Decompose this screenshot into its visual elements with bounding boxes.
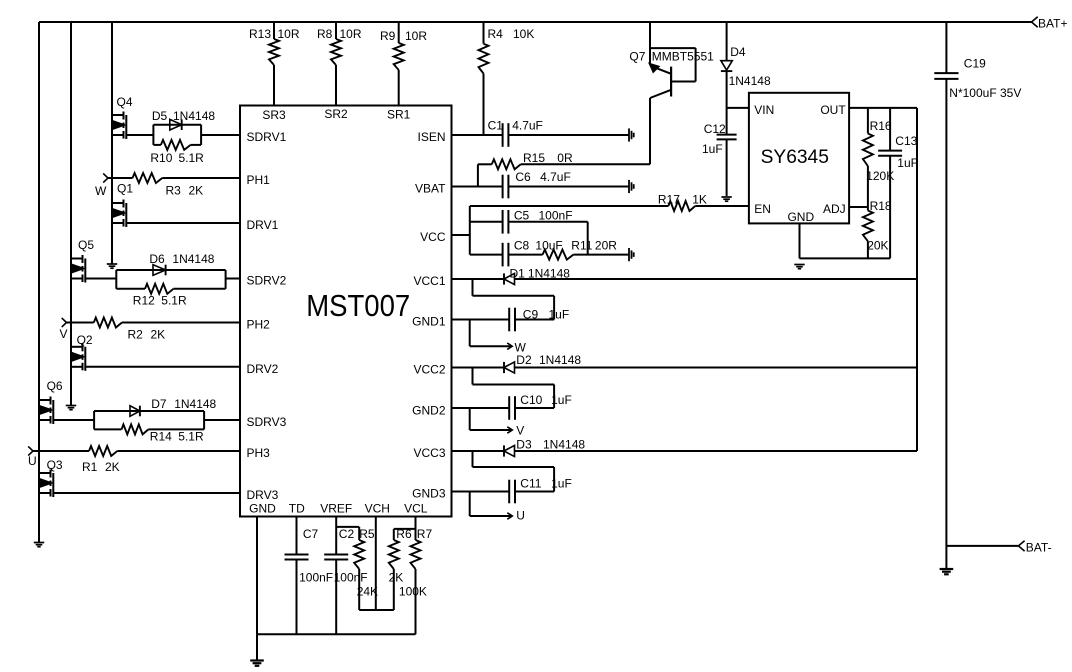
svg-text:D2: D2	[516, 353, 532, 367]
wire VCC1 right	[515, 278, 918, 280]
svg-text:Q5: Q5	[78, 238, 94, 252]
wire DRV2	[85, 366, 240, 368]
wire Q4 gate	[126, 134, 153, 136]
svg-text:GND1: GND1	[412, 315, 446, 329]
svg-text:PH1: PH1	[247, 173, 271, 187]
wire DRV3	[53, 492, 240, 494]
wire VREF pin	[335, 517, 337, 555]
wire VCL to R6	[394, 529, 416, 540]
wire U stub	[470, 492, 512, 517]
pin labels MST007 top	[262, 107, 410, 122]
svg-text:PH3: PH3	[247, 446, 271, 460]
wire VCC3	[452, 450, 505, 452]
svg-text:R2: R2	[128, 328, 144, 342]
capacitor C6	[503, 170, 571, 199]
svg-text:GND3: GND3	[412, 487, 446, 501]
transistor Q1	[112, 182, 133, 228]
wire R11 right	[573, 254, 628, 256]
wire left rail A	[38, 22, 40, 542]
svg-text:D4: D4	[730, 45, 746, 59]
svg-text:VBAT: VBAT	[415, 182, 446, 196]
wire EN right	[695, 205, 749, 207]
svg-text:D5: D5	[152, 109, 168, 123]
svg-text:10uF: 10uF	[535, 238, 562, 252]
svg-text:R5: R5	[359, 527, 375, 541]
svg-text:OUT: OUT	[820, 103, 846, 117]
svg-text:R14: R14	[150, 430, 172, 444]
wire R15 left leg	[478, 164, 492, 186]
capacitor C2	[324, 527, 367, 585]
svg-text:C6: C6	[515, 170, 531, 184]
wire GND2	[452, 407, 510, 409]
ground rail A	[34, 543, 44, 547]
resistor R8	[317, 22, 362, 106]
wire bottom node	[359, 609, 394, 611]
svg-text:R3: R3	[166, 184, 182, 198]
wire VCH pin	[375, 517, 377, 611]
svg-text:C11: C11	[520, 477, 541, 491]
svg-text:V: V	[60, 327, 68, 341]
capacitor C7	[285, 527, 334, 585]
wire SDRV3	[204, 419, 240, 421]
diode D4	[721, 45, 771, 88]
wire SDRV1	[201, 134, 240, 136]
transistor Q3	[39, 458, 63, 497]
svg-text:10R: 10R	[340, 27, 362, 41]
svg-text:Q7: Q7	[629, 49, 645, 63]
svg-text:R9: R9	[380, 29, 396, 43]
resistor R15	[492, 151, 573, 169]
svg-text:C19: C19	[964, 57, 986, 71]
ground stub R11	[629, 248, 634, 261]
ground BAT-	[940, 569, 954, 574]
svg-text:Q6: Q6	[47, 379, 63, 393]
svg-text:N*100uF 35V: N*100uF 35V	[949, 86, 1021, 100]
wire D4 bottom	[726, 71, 728, 108]
svg-text:D6: D6	[149, 252, 165, 266]
svg-text:VCC2: VCC2	[413, 363, 445, 377]
svg-text:VCH: VCH	[365, 502, 390, 516]
wire left rail C	[111, 22, 113, 264]
svg-text:R16: R16	[870, 119, 892, 133]
svg-text:10R: 10R	[405, 29, 427, 43]
pin labels MST007 left	[247, 130, 287, 502]
capacitor C11	[509, 477, 572, 504]
svg-text:W: W	[95, 184, 107, 198]
svg-text:C2: C2	[339, 527, 355, 541]
diode D3	[504, 438, 585, 457]
wire GND1	[452, 319, 510, 321]
wire SDRV2	[226, 278, 240, 280]
wire SY GND	[800, 223, 891, 258]
wire VBAT right	[508, 186, 628, 188]
capacitor C13	[878, 108, 918, 259]
svg-text:C7: C7	[303, 527, 319, 541]
wire VCC1	[452, 278, 505, 280]
wire C10 bridge	[473, 368, 555, 409]
IC U2 SY6345 regulator body	[749, 93, 849, 224]
svg-text:U: U	[28, 454, 37, 468]
wire VCC2 right	[515, 367, 918, 369]
svg-text:R7: R7	[417, 527, 433, 541]
wire D4 top	[726, 22, 728, 61]
svg-text:SDRV2: SDRV2	[247, 274, 287, 288]
svg-text:5.1R: 5.1R	[178, 430, 204, 444]
svg-text:4.7uF: 4.7uF	[540, 170, 571, 184]
wire DRV1	[126, 222, 240, 224]
node U right	[507, 508, 525, 522]
wire EN line	[470, 205, 669, 207]
wire C9 bridge	[473, 279, 555, 320]
wire PH1 right	[162, 177, 240, 179]
wire R7 bottom	[415, 569, 417, 634]
svg-text:1N4148: 1N4148	[539, 353, 581, 367]
svg-text:1uF: 1uF	[897, 156, 918, 170]
wire PH1 left	[108, 177, 133, 179]
wire BAT- line	[946, 545, 1018, 547]
IC U1 MST007 body	[240, 106, 452, 517]
svg-text:D3: D3	[516, 438, 532, 452]
ground SY6345	[794, 265, 804, 269]
wire PH2 left	[67, 322, 94, 324]
capacitor C12	[702, 108, 737, 196]
svg-text:VCC3: VCC3	[413, 446, 445, 460]
svg-text:4.7uF: 4.7uF	[512, 118, 543, 132]
node W right	[507, 340, 526, 354]
svg-text:BAT+: BAT+	[1038, 17, 1067, 31]
svg-text:10R: 10R	[278, 27, 300, 41]
svg-text:0R: 0R	[557, 151, 573, 165]
pin labels MST007 right	[412, 130, 446, 501]
node V right	[507, 424, 524, 438]
svg-text:1N4148: 1N4148	[174, 397, 216, 411]
resistor R16	[863, 108, 894, 211]
svg-text:BAT-: BAT-	[1026, 541, 1052, 555]
svg-text:R18: R18	[870, 199, 892, 213]
svg-text:SY6345: SY6345	[761, 146, 829, 168]
resistor R5	[354, 527, 378, 599]
svg-text:2K: 2K	[151, 328, 166, 342]
capacitor C10	[509, 393, 572, 420]
svg-text:1K: 1K	[692, 193, 707, 207]
svg-text:R1: R1	[82, 460, 98, 474]
svg-text:MMBT5551: MMBT5551	[652, 49, 714, 63]
svg-text:20K: 20K	[867, 239, 888, 253]
resistor R3	[133, 173, 204, 198]
svg-text:R8: R8	[317, 27, 333, 41]
svg-text:U: U	[516, 508, 525, 522]
ground stub ISEN	[629, 128, 634, 141]
wire C2 bottom	[335, 560, 337, 635]
wire VBAT	[452, 186, 503, 188]
transistor Q7	[629, 22, 714, 98]
svg-text:R11: R11	[571, 238, 592, 252]
svg-text:R12: R12	[133, 294, 155, 308]
wire ISEN right	[508, 134, 628, 136]
ground bottom	[250, 661, 264, 666]
svg-text:VCL: VCL	[404, 502, 428, 516]
wire OUT bus	[916, 108, 918, 451]
ground rail B	[66, 406, 76, 410]
svg-text:2K: 2K	[189, 184, 204, 198]
svg-text:R15: R15	[523, 151, 545, 165]
svg-text:C13: C13	[895, 134, 917, 148]
wire C19 bottom	[945, 79, 947, 568]
svg-text:MST007: MST007	[306, 289, 410, 323]
wire TD pin	[296, 517, 298, 555]
wire C8 left	[470, 254, 503, 256]
svg-text:GND2: GND2	[412, 404, 446, 418]
svg-text:EN: EN	[754, 202, 771, 216]
svg-text:DRV2: DRV2	[247, 362, 279, 376]
node BAT+	[1032, 17, 1068, 31]
svg-text:DRV1: DRV1	[247, 218, 279, 232]
node V left	[60, 318, 68, 341]
wire ISEN	[452, 134, 503, 136]
wire C9 right	[515, 319, 554, 321]
capacitor C9	[509, 308, 569, 332]
node U left	[28, 446, 37, 468]
wire C10 right	[515, 407, 554, 409]
wire bottom rail	[257, 633, 416, 635]
pin labels SY6345	[754, 103, 846, 224]
wire Q6 gate	[53, 419, 94, 421]
diode D2	[504, 353, 581, 373]
svg-text:SDRV3: SDRV3	[247, 415, 287, 429]
resistor R9	[380, 22, 427, 106]
wire VIN	[727, 107, 749, 109]
resistor R2	[94, 318, 165, 342]
wire GND3	[452, 491, 510, 493]
svg-text:10K: 10K	[513, 27, 534, 41]
capacitor C19	[934, 57, 1021, 101]
svg-text:PH2: PH2	[247, 318, 271, 332]
wire VCC2	[452, 367, 505, 369]
svg-text:VCC: VCC	[420, 230, 446, 244]
ground stub VBAT	[629, 180, 634, 193]
diode D7 / resistor R14 network	[94, 397, 216, 444]
svg-text:1uF: 1uF	[551, 393, 572, 407]
wire VREF to R5	[336, 527, 359, 540]
svg-text:R6: R6	[396, 527, 412, 541]
svg-text:100nF: 100nF	[539, 208, 573, 222]
svg-text:1uF: 1uF	[702, 142, 723, 156]
svg-text:GND: GND	[787, 210, 814, 224]
wire R6 bottom	[393, 569, 395, 610]
capacitor C1	[488, 118, 543, 147]
svg-text:ISEN: ISEN	[417, 130, 445, 144]
wire VCC pin	[452, 206, 470, 255]
diode D1	[504, 266, 570, 284]
wire C5 left	[470, 221, 503, 223]
wire C19 top	[945, 22, 947, 73]
wire VCC3 right	[515, 450, 918, 452]
transistor Q4	[112, 95, 133, 139]
pin labels MST007 bottom	[249, 502, 428, 516]
resistor R17	[658, 193, 707, 212]
svg-text:TD: TD	[289, 502, 305, 516]
wire left rail B	[70, 22, 72, 405]
svg-text:C12: C12	[704, 122, 726, 136]
svg-text:D7: D7	[151, 397, 167, 411]
wire GND pin	[256, 517, 258, 635]
wire BAT+ top rail	[39, 21, 1032, 23]
resistor R6	[389, 527, 412, 585]
wire C7 bottom	[296, 560, 298, 635]
resistor R7	[399, 527, 433, 599]
wire C11 right	[515, 491, 554, 493]
svg-text:SR3: SR3	[262, 108, 286, 122]
node BAT-	[1018, 541, 1051, 555]
wire OUT	[849, 107, 917, 109]
svg-text:C5: C5	[514, 208, 530, 222]
svg-text:2K: 2K	[105, 460, 120, 474]
capacitor C8	[503, 238, 563, 266]
transistor Q2	[71, 333, 93, 371]
svg-text:5.1R: 5.1R	[179, 151, 205, 165]
svg-text:SR2: SR2	[324, 107, 348, 121]
svg-text:100nF: 100nF	[299, 571, 333, 585]
svg-text:VIN: VIN	[754, 103, 774, 117]
diode D6 / resistor R12 network	[116, 252, 225, 308]
svg-text:R17: R17	[658, 193, 680, 207]
node W left	[95, 173, 108, 198]
svg-text:100K: 100K	[399, 585, 427, 599]
svg-text:1N4148: 1N4148	[729, 74, 771, 88]
resistor R4	[479, 22, 535, 135]
wire to ground	[256, 634, 258, 660]
wire R5 bottom	[358, 569, 360, 610]
wire Q5 gate	[85, 278, 116, 280]
svg-text:1N4148: 1N4148	[173, 109, 215, 123]
wire C11 bridge	[473, 451, 555, 492]
wire PH2 right	[122, 322, 240, 324]
capacitor C5	[503, 208, 573, 233]
svg-text:Q4: Q4	[117, 95, 133, 109]
wire PH3 left	[33, 450, 89, 452]
svg-text:V: V	[516, 424, 524, 438]
svg-text:SDRV1: SDRV1	[247, 130, 287, 144]
svg-text:R4: R4	[488, 27, 504, 41]
svg-text:Q2: Q2	[77, 333, 93, 347]
wire V stub	[470, 408, 512, 430]
svg-text:20R: 20R	[595, 238, 617, 252]
transistor Q5	[71, 238, 94, 283]
wire W stub	[470, 320, 512, 347]
svg-text:SR1: SR1	[387, 108, 411, 122]
svg-text:2K: 2K	[389, 571, 404, 585]
svg-text:VREF: VREF	[320, 502, 352, 516]
svg-text:R10: R10	[150, 151, 172, 165]
wire C5 right	[508, 222, 587, 255]
svg-text:ADJ: ADJ	[823, 202, 846, 216]
wire C8 to R11	[508, 254, 542, 256]
svg-text:C8: C8	[514, 238, 530, 252]
wire R15 to Q7 collector	[521, 98, 650, 164]
svg-text:5.1R: 5.1R	[161, 294, 187, 308]
svg-text:Q3: Q3	[47, 458, 63, 472]
svg-text:1N4148: 1N4148	[543, 438, 585, 452]
svg-text:DRV3: DRV3	[247, 488, 279, 502]
svg-text:Q1: Q1	[117, 182, 133, 196]
resistor R13	[249, 22, 300, 106]
diode D5 / resistor R10 network	[150, 109, 215, 165]
resistor R1	[82, 446, 120, 474]
svg-text:VCC1: VCC1	[413, 274, 445, 288]
resistor R11	[543, 238, 618, 259]
svg-text:R13: R13	[249, 27, 271, 41]
resistor R18	[863, 199, 892, 259]
wire ADJ	[849, 206, 868, 208]
svg-text:C10: C10	[520, 393, 542, 407]
wire PH3 right	[117, 450, 240, 452]
transistor Q6	[39, 379, 63, 424]
svg-text:1uF: 1uF	[551, 477, 572, 491]
svg-text:1N4148: 1N4148	[172, 252, 214, 266]
svg-text:C1: C1	[488, 118, 504, 132]
ground C12	[721, 197, 731, 201]
svg-text:100nF: 100nF	[334, 571, 368, 585]
ground rail C	[107, 264, 117, 268]
wire VCL pin	[415, 517, 417, 541]
svg-text:GND: GND	[249, 502, 276, 516]
